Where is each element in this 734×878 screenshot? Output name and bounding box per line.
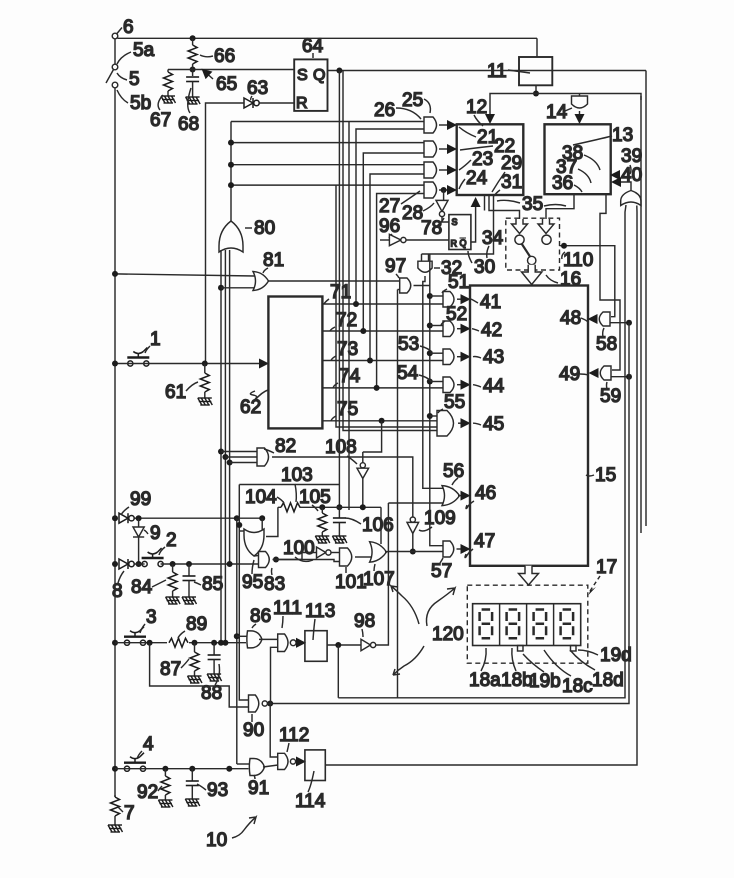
node Vb to 82	[222, 454, 228, 460]
label 42	[472, 320, 502, 341]
svg-text:57: 57	[431, 561, 452, 582]
wire 107 output line to gate 57	[388, 551, 443, 553]
label 19b	[523, 654, 561, 692]
label 9	[144, 523, 161, 544]
node Vc on switch2 line	[227, 561, 233, 567]
svg-text:10: 10	[206, 830, 227, 851]
node C88 tap	[211, 640, 217, 646]
label 86	[250, 606, 271, 628]
box 114	[305, 750, 325, 781]
label 43	[473, 347, 504, 368]
label 35	[497, 194, 566, 215]
svg-text:85: 85	[202, 574, 223, 595]
wire 104 left leg	[266, 507, 278, 536]
node bus 185	[228, 182, 234, 188]
wire clock to gate 51	[430, 295, 443, 297]
label 18c	[544, 650, 593, 697]
node diode9 bottom	[136, 561, 142, 567]
box 13	[545, 124, 611, 194]
svg-text:54: 54	[397, 363, 419, 384]
node line 73 V3	[367, 358, 373, 364]
svg-text:66: 66	[214, 46, 235, 67]
wire R66 bottom to node	[192, 64, 194, 76]
label 71	[324, 282, 351, 304]
vertical V1 to gate1	[356, 129, 424, 304]
svg-text:67: 67	[150, 110, 171, 131]
label 37	[556, 157, 591, 183]
or-gate 81	[253, 272, 269, 291]
svg-text:30: 30	[474, 257, 495, 278]
label 84	[131, 577, 166, 598]
svg-text:43: 43	[483, 347, 504, 368]
svg-text:120: 120	[432, 624, 464, 645]
label 27	[379, 191, 420, 217]
ground below C93	[185, 786, 200, 807]
label 106	[345, 515, 394, 536]
label 74	[333, 366, 361, 388]
label 107	[363, 564, 395, 590]
svg-text:75: 75	[337, 399, 358, 420]
wire right bus 636 from gate 40	[325, 206, 637, 766]
dashed box 17 display	[467, 585, 588, 663]
svg-text:52: 52	[446, 304, 467, 325]
svg-text:6: 6	[123, 17, 134, 38]
resistor 105	[318, 507, 327, 532]
wire 95 upper input from 239	[239, 530, 246, 532]
label 100	[283, 538, 315, 561]
wire node to box 12 clock	[490, 94, 536, 123]
wire 113 node down to feedback line	[337, 645, 339, 698]
wire from node A down to diode 63	[206, 103, 245, 364]
capacitor 93	[186, 769, 199, 786]
wire gate 40 output into box 13	[613, 182, 631, 191]
wire 95 output to gate 83	[254, 555, 258, 558]
wire inverter 109 to node	[412, 534, 414, 552]
svg-text:R: R	[296, 95, 308, 112]
wire Qbar of 30 up into box 12	[471, 199, 476, 242]
wire right bus 641	[640, 96, 642, 533]
label 91	[248, 775, 269, 799]
inverter 96	[389, 234, 406, 245]
ground below C85	[182, 581, 197, 605]
svg-text:109: 109	[424, 508, 456, 529]
node R84 tap	[170, 561, 176, 567]
decimal point square 19b	[518, 646, 524, 652]
label 17	[589, 557, 618, 595]
label 85	[194, 574, 223, 595]
nand-gate 112	[278, 753, 296, 769]
wire gate 58 lower input	[610, 322, 629, 324]
wire right bus 646 from Q	[645, 71, 647, 527]
svg-text:36: 36	[552, 173, 573, 194]
node Va to 82	[218, 449, 224, 455]
svg-text:71: 71	[330, 282, 351, 303]
svg-text:5a: 5a	[133, 40, 155, 61]
label 111	[273, 598, 302, 628]
wire diode 63 to R input	[260, 102, 295, 104]
digit 8 third	[534, 610, 547, 639]
wire node right to right bus	[536, 94, 641, 101]
node C93 tap	[189, 766, 195, 772]
label 109	[419, 508, 456, 531]
switch 3	[124, 627, 146, 646]
label 1	[145, 329, 161, 353]
and-gate 57	[443, 541, 454, 557]
wire top line 484	[239, 484, 339, 486]
or-gate 40 pointing up	[621, 191, 641, 206]
or-gate 91	[249, 759, 264, 776]
arrow gate2 output into box 12	[439, 148, 455, 150]
box 12	[457, 124, 524, 195]
and-gate 82	[257, 448, 269, 466]
label 65 with arrow	[203, 70, 237, 95]
wire switch 2 to gate 83	[161, 563, 259, 565]
node line 74 V4	[374, 385, 380, 391]
node Q branch	[336, 68, 342, 74]
inverter 98	[361, 639, 376, 650]
wire box 11 output	[535, 85, 537, 93]
svg-text:17: 17	[596, 557, 617, 578]
wire switch 4 row	[115, 768, 249, 770]
node R105 tap	[319, 504, 325, 510]
capacitor 68	[186, 77, 199, 82]
label 13	[573, 125, 633, 146]
label 25	[402, 90, 430, 113]
node 110 line	[561, 243, 567, 249]
svg-text:31: 31	[501, 172, 522, 193]
svg-text:15: 15	[595, 465, 616, 486]
switch 6 contact circle	[112, 28, 122, 39]
box 15	[470, 286, 588, 566]
label 92	[137, 782, 162, 803]
label 95	[242, 560, 263, 593]
wire R67 top lead	[167, 70, 169, 73]
wire left rail	[114, 88, 116, 797]
label 39	[621, 146, 642, 174]
label 73	[331, 339, 358, 361]
hollow arrow left contact	[512, 219, 528, 234]
wire 90 node down to gate 112	[270, 704, 278, 758]
svg-text:97: 97	[385, 256, 406, 277]
digit 8 fourth	[561, 610, 574, 639]
node rail 642	[112, 640, 118, 646]
wire switch 1 line into box 62	[115, 363, 267, 365]
wire R branch line y121	[231, 121, 424, 123]
label 8	[112, 571, 124, 602]
svg-text:99: 99	[130, 489, 151, 510]
label 80	[245, 218, 275, 239]
ground below R84	[166, 591, 181, 604]
node gate 58 feedback	[626, 320, 632, 326]
label 103	[281, 465, 313, 502]
svg-text:47: 47	[474, 531, 495, 552]
svg-text:5: 5	[129, 69, 140, 90]
wire 110 line from dashed box to gate 58	[560, 246, 615, 317]
arrow gate 54 into box 15	[457, 384, 469, 386]
and-gate 14 pointing down	[572, 96, 588, 108]
wire bus line to gate 26	[231, 142, 424, 144]
label 19d	[578, 645, 632, 666]
label 32	[434, 258, 462, 279]
wire line 71	[322, 303, 443, 305]
svg-text:18b: 18b	[501, 670, 533, 691]
label 87	[160, 659, 189, 680]
wire inverter 78 to S of latch 30	[442, 217, 449, 222]
inverter 109 pointing down	[407, 517, 419, 534]
ground below C68	[186, 82, 201, 105]
wire top rail	[118, 37, 538, 39]
svg-text:16: 16	[560, 269, 581, 290]
wire vertical 343	[343, 71, 437, 431]
arrow gate 57 into box 15	[457, 548, 469, 550]
wire rail to OR81 input	[115, 274, 255, 276]
node gate 83 output	[273, 557, 279, 563]
node clock bus g54	[427, 379, 433, 385]
vertical bus Vb below gate 80	[224, 250, 226, 643]
wire Vc to 82 input	[230, 462, 257, 464]
svg-text:103: 103	[281, 465, 313, 486]
svg-text:56: 56	[443, 461, 464, 482]
resistor 92	[161, 769, 170, 795]
node Va on switch3 line	[218, 640, 224, 646]
wire box12 stub to switch arrow	[489, 195, 520, 219]
svg-text:1: 1	[150, 329, 161, 350]
svg-text:98: 98	[354, 611, 375, 632]
wire line 72	[322, 330, 443, 332]
wire line 74	[322, 387, 443, 389]
label 22	[460, 136, 515, 157]
node clock bus g51	[427, 293, 433, 299]
node gate4 output	[441, 187, 447, 193]
label 55	[438, 392, 465, 413]
or-gate 56	[442, 486, 460, 506]
hollow arrow box 15 to display	[519, 566, 539, 585]
svg-text:26: 26	[374, 100, 395, 121]
wire right bus 645	[270, 323, 629, 704]
ground below R87	[188, 671, 203, 683]
label 72	[330, 310, 357, 331]
capacitor 88	[208, 643, 221, 660]
svg-text:S: S	[297, 67, 308, 84]
decimal point square 19d	[571, 646, 577, 652]
label 10	[206, 817, 256, 851]
resistor 84	[168, 564, 177, 591]
vertical bus Va below gate 80	[220, 250, 222, 643]
svg-text:61: 61	[165, 382, 186, 403]
label 89	[178, 614, 207, 638]
label 24	[459, 168, 488, 189]
wire 83 output branch to gate 101	[276, 560, 340, 562]
wire 111 to box 113	[296, 642, 304, 644]
label 18a	[469, 648, 501, 691]
svg-text:105: 105	[299, 487, 331, 508]
leader for 5a	[117, 52, 131, 64]
label 47	[465, 531, 495, 558]
node C85 tap	[186, 561, 192, 567]
svg-text:84: 84	[131, 577, 153, 598]
node clock bus g52	[427, 323, 433, 329]
svg-text:90: 90	[243, 720, 264, 741]
label 97	[385, 256, 406, 278]
svg-text:9: 9	[150, 523, 161, 544]
node on top rail	[190, 35, 196, 41]
wire top rail into box 11	[536, 38, 538, 57]
wire box12 stub to gate 32	[422, 195, 494, 254]
svg-text:51: 51	[448, 272, 469, 293]
node Vc to 82	[227, 460, 233, 466]
svg-text:62: 62	[240, 397, 261, 418]
svg-text:46: 46	[475, 483, 496, 504]
vertical V2 to gate2	[363, 153, 424, 331]
label 110	[562, 250, 593, 271]
svg-text:44: 44	[483, 376, 505, 397]
wire OR81 output to gate 97	[268, 280, 401, 282]
node 90 output	[267, 701, 273, 707]
and-gate 51	[443, 292, 454, 308]
node below box 11	[533, 91, 539, 97]
svg-text:35: 35	[522, 194, 543, 215]
resistor 7	[111, 795, 120, 825]
label 21	[459, 127, 498, 148]
svg-text:4: 4	[143, 734, 154, 755]
dashed box 16	[506, 218, 560, 270]
squiggle arrow b	[391, 586, 419, 624]
ground below R7	[108, 825, 123, 832]
and-gate 101	[340, 548, 352, 566]
label 28	[402, 203, 434, 224]
wire 98 output up to gate 56	[376, 503, 389, 645]
node rail 273	[112, 271, 118, 277]
capacitor 85	[183, 564, 196, 581]
wire Va to 82 input	[221, 451, 257, 453]
label 7	[118, 803, 135, 824]
hollow arrow into box 15	[522, 265, 542, 285]
node 109 to 57	[410, 549, 416, 555]
svg-text:13: 13	[612, 125, 633, 146]
arrow gate4 output into box 12	[439, 189, 455, 191]
or-gate 95 pointing down	[244, 529, 264, 556]
wire node left to resistor 67	[168, 69, 193, 71]
digit cell separator 2	[526, 604, 528, 646]
node 339 on line 507	[336, 504, 342, 510]
inverter 108	[357, 463, 369, 479]
svg-text:55: 55	[444, 392, 465, 413]
wire gate 97 output to clock bus	[414, 254, 444, 546]
svg-text:93: 93	[207, 780, 228, 801]
resistor 67	[164, 72, 173, 91]
label 41	[471, 292, 501, 313]
leader 68	[188, 88, 191, 113]
svg-text:108: 108	[325, 437, 357, 458]
wire inverter 96 input	[380, 239, 389, 241]
svg-text:110: 110	[563, 250, 593, 271]
left contact circle	[515, 235, 524, 244]
wire right feedback bus 627	[338, 205, 626, 698]
nand-gate 90	[249, 695, 268, 712]
wire node to S input of latch 64	[193, 69, 295, 71]
svg-text:112: 112	[279, 725, 309, 746]
wiper circle	[528, 256, 536, 264]
svg-text:7: 7	[124, 803, 135, 824]
svg-text:92: 92	[137, 782, 158, 803]
SR latch U64	[294, 59, 327, 111]
and-gate 26in	[424, 141, 437, 157]
and-gate 55	[437, 411, 454, 437]
node bus 142	[228, 140, 234, 146]
and-gate 97	[400, 278, 411, 293]
wire line 75	[322, 420, 437, 422]
arrow gate 55 into box 15	[458, 422, 469, 424]
wire vertical 239	[239, 485, 248, 701]
svg-text:11: 11	[487, 61, 507, 82]
node line 71 V1	[353, 301, 359, 307]
resistor 61	[200, 364, 209, 393]
diode 99	[119, 513, 134, 523]
leader 64	[312, 53, 314, 58]
svg-text:72: 72	[336, 310, 357, 331]
wire 108 to RC node	[362, 479, 364, 508]
and-gate 59 pointing left	[600, 366, 611, 380]
diode 8	[119, 559, 134, 569]
svg-text:81: 81	[263, 250, 284, 271]
node rail 363	[112, 361, 118, 367]
wire switch 6 to contact 5a	[114, 39, 116, 64]
digit cell separator 1	[499, 604, 501, 646]
label 16	[546, 269, 581, 290]
vertical V3 to gate3	[370, 174, 424, 361]
svg-text:45: 45	[483, 414, 504, 435]
wire 90 output node stub	[267, 703, 272, 705]
label 31	[494, 172, 522, 196]
vertical bus above OR gate 80	[230, 122, 232, 222]
nand-gate 111	[278, 634, 296, 652]
label 30	[468, 251, 495, 278]
hollow arrow right contact	[538, 219, 554, 234]
leader for 5	[117, 73, 127, 80]
arrow gate1 output into box 12	[439, 124, 455, 126]
label 90	[243, 714, 264, 741]
svg-text:86: 86	[250, 606, 271, 627]
and-gate 32 pointing down	[418, 261, 432, 272]
label 23	[459, 149, 493, 170]
svg-text:78: 78	[421, 218, 442, 239]
label 83	[264, 568, 285, 595]
svg-text:25: 25	[402, 90, 423, 111]
wire switch 3 row	[115, 642, 246, 644]
and-gate 53	[443, 349, 454, 365]
svg-text:29: 29	[501, 153, 522, 174]
svg-text:104: 104	[245, 487, 277, 508]
label 62	[240, 390, 268, 418]
switch 4	[124, 753, 146, 772]
label 26	[374, 100, 421, 121]
leader 63	[251, 96, 252, 100]
resistor 66	[188, 45, 197, 64]
wire switch3 dogleg to gate 90	[150, 643, 249, 707]
svg-text:19b: 19b	[529, 671, 561, 692]
label 48	[560, 308, 588, 329]
label 98	[354, 611, 375, 637]
wire R66 top lead	[192, 38, 194, 45]
inverter 78 pointing down	[436, 200, 448, 216]
box 62	[268, 297, 322, 429]
wire gate 101 to OR 107	[355, 556, 371, 558]
contact 5b	[112, 82, 118, 88]
svg-text:42: 42	[481, 320, 502, 341]
box 11	[519, 57, 552, 85]
wire 107 upper input from RC line	[380, 507, 382, 544]
and-gate 83	[259, 552, 270, 568]
